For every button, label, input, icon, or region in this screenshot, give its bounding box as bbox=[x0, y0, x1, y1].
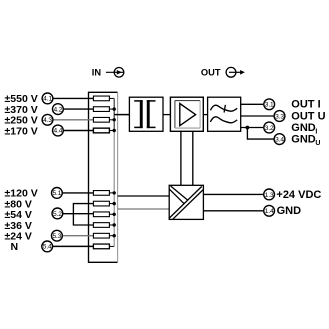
input divider block bbox=[89, 92, 118, 262]
filter wave cut tick bbox=[224, 105, 225, 113]
wire amplifier to DC/DC right bbox=[192, 131, 194, 185]
wire terminal 4.4 to R4 bbox=[63, 130, 93, 132]
svg-text:3.3: 3.3 bbox=[275, 113, 284, 120]
wire R6 to bus bbox=[109, 203, 114, 205]
wire terminal 5.1 to R5 bbox=[62, 192, 93, 194]
terminal 5.2 bbox=[52, 208, 63, 219]
svg-text:+24 VDC: +24 VDC bbox=[276, 189, 321, 201]
transformer core bars bbox=[140, 100, 143, 128]
DC/DC diagonal band bbox=[169, 186, 201, 218]
resistor R2 bbox=[93, 107, 109, 112]
wire filter to terminal 3.3 bbox=[241, 115, 274, 117]
svg-text:4.1: 4.1 bbox=[43, 96, 52, 103]
resistor R5 bbox=[93, 191, 109, 196]
wire R4 to bus bbox=[109, 130, 114, 132]
wire terminal 4.3 to R3 (grey) bbox=[53, 119, 94, 121]
terminal 3.2 bbox=[264, 122, 275, 133]
terminal 5.3 bbox=[52, 230, 63, 241]
svg-text:5.3: 5.3 bbox=[52, 233, 61, 240]
wire bus to transformer bbox=[114, 114, 129, 116]
terminal 4.4 bbox=[53, 125, 64, 136]
terminal 5.1 bbox=[52, 188, 63, 199]
wire R3 to bus bbox=[109, 119, 114, 121]
junction dots on bus bbox=[113, 107, 116, 110]
svg-text:OUT I: OUT I bbox=[291, 99, 320, 111]
wire filter to terminal 3.2 bbox=[241, 127, 264, 129]
terminal 5.4 bbox=[42, 241, 53, 252]
svg-text:4.2: 4.2 bbox=[53, 106, 62, 113]
transformer winding strokes bbox=[134, 100, 143, 102]
IN direction circle bbox=[114, 68, 124, 78]
amplifier inner frame bbox=[175, 100, 200, 102]
wire R2 to bus bbox=[109, 108, 114, 110]
svg-text:4.3: 4.3 bbox=[43, 117, 52, 124]
resistor R7 bbox=[93, 212, 109, 217]
filter box bbox=[208, 97, 241, 131]
svg-text:3.4: 3.4 bbox=[275, 137, 284, 144]
svg-text:3.1: 3.1 bbox=[265, 102, 274, 109]
wire terminal 4.1 to R1 bbox=[53, 97, 94, 99]
OUT direction circle bbox=[226, 67, 236, 77]
wire R10 to bus bbox=[109, 245, 114, 247]
resistor R8 bbox=[93, 223, 109, 228]
resistor R4 bbox=[93, 128, 109, 133]
wire R5 to bus bbox=[109, 192, 114, 194]
amplifier triangle bbox=[180, 104, 196, 126]
wire OUT arrow lead bbox=[229, 71, 241, 73]
wire R1 to bus bbox=[109, 97, 114, 99]
filter top wave bbox=[210, 105, 237, 111]
bus bbox=[113, 98, 115, 246]
resistor R6 bbox=[93, 201, 109, 206]
svg-text:1.4: 1.4 bbox=[265, 208, 274, 215]
svg-text:1.3: 1.3 bbox=[265, 192, 274, 199]
resistor R10 bbox=[93, 244, 109, 249]
DC/DC fork stripe bbox=[171, 186, 188, 200]
terminal 4.3 bbox=[42, 114, 53, 125]
svg-text:4.4: 4.4 bbox=[53, 128, 62, 135]
terminal 3.1 bbox=[264, 99, 275, 110]
wire branch to terminal 3.4 bbox=[247, 128, 273, 140]
wire DC/DC to terminal 1.3 bbox=[203, 193, 263, 195]
wire amplifier to DC/DC left bbox=[180, 131, 182, 185]
svg-text:±170 V: ±170 V bbox=[5, 125, 38, 137]
wire terminal 5.3 to R9 (grey) bbox=[62, 235, 93, 237]
resistor R9 bbox=[93, 233, 109, 238]
svg-text:U: U bbox=[315, 140, 320, 147]
IN arrowhead bbox=[117, 70, 122, 75]
wire terminal 5.2 to R7 bbox=[63, 213, 94, 215]
terminal 3.4 bbox=[274, 134, 285, 145]
svg-text:3.2: 3.2 bbox=[265, 125, 274, 132]
terminal 1.3 bbox=[264, 189, 275, 200]
terminal 4.1 bbox=[42, 93, 53, 104]
OUT arrowhead bbox=[240, 70, 245, 75]
svg-text:5.1: 5.1 bbox=[52, 190, 61, 197]
wire terminal 4.2 to R2 bbox=[63, 108, 93, 110]
wire R9 to bus bbox=[109, 235, 114, 237]
svg-text:N: N bbox=[11, 241, 19, 253]
terminal 3.3 bbox=[274, 111, 285, 122]
wire terminal 5.4 to R10 bbox=[53, 245, 94, 247]
wire filter to terminal 3.1 bbox=[241, 103, 264, 105]
wire IN arrow lead bbox=[106, 71, 123, 73]
wire R7 to bus bbox=[109, 213, 114, 215]
resistor R1 bbox=[93, 96, 109, 101]
svg-text:OUT: OUT bbox=[201, 67, 221, 77]
svg-text:OUT U: OUT U bbox=[291, 110, 325, 122]
svg-text:5.4: 5.4 bbox=[43, 244, 52, 251]
resistor R3 bbox=[93, 117, 109, 122]
terminal 4.2 bbox=[53, 104, 64, 115]
wire amplifier to filter bbox=[203, 114, 207, 116]
svg-text:5.2: 5.2 bbox=[53, 211, 62, 218]
filter bottom wave bbox=[210, 117, 237, 123]
wire divider block to DC/DC lower (grey) bbox=[118, 208, 170, 210]
wire transformer to amplifier bbox=[163, 114, 170, 116]
wire divider block to DC/DC upper bbox=[118, 195, 170, 197]
DC/DC converter box bbox=[169, 185, 203, 219]
svg-text:IN: IN bbox=[92, 67, 102, 77]
wire DC/DC to terminal 1.4 bbox=[203, 210, 263, 212]
svg-text:GND: GND bbox=[291, 134, 316, 146]
junction node on GND wire bbox=[246, 126, 250, 130]
svg-text:±24 V: ±24 V bbox=[5, 231, 32, 243]
bracket joining R6 R7 R8 bbox=[73, 204, 93, 225]
amplifier box U1 bbox=[170, 97, 203, 131]
wire R8 to bus bbox=[109, 224, 114, 226]
svg-text:GND: GND bbox=[277, 205, 302, 217]
terminal 1.4 bbox=[264, 205, 275, 216]
svg-text:GND: GND bbox=[291, 122, 316, 134]
transformer box T1 bbox=[129, 97, 163, 131]
